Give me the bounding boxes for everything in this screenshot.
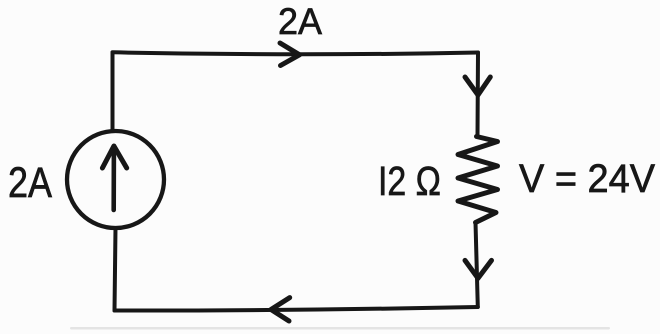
arrow on top wire (current direction, pointing right) (280, 43, 300, 66)
svg-text:I2 Ω: I2 Ω (378, 158, 441, 204)
svg-text:V = 24V: V = 24V (519, 157, 655, 201)
resistor R1 zigzag (458, 137, 498, 223)
wire: bottom horizontal (115, 307, 478, 311)
wire: top-left vertical segment (source top to top-left corner) (111, 53, 115, 132)
current source I1 circle (67, 131, 164, 228)
svg-text:2A: 2A (278, 1, 322, 42)
scan artifact: bottom edge smudge (70, 327, 610, 330)
svg-text:2A: 2A (8, 160, 53, 207)
wire: bottom-left vertical segment (corner to source bottom) (115, 228, 116, 311)
arrow on bottom wire (pointing left) (271, 298, 290, 321)
current source arrowhead (102, 146, 126, 168)
arrow on right wire upper (pointing down) (465, 77, 490, 95)
wire: right vertical lower (resistor bottom to corner) (476, 223, 478, 308)
wire: right vertical upper (corner to resistor top) (476, 53, 481, 137)
current source arrow shaft (111, 147, 116, 211)
wire: top horizontal (113, 52, 479, 54)
arrow on right wire lower (pointing down) (465, 260, 492, 278)
